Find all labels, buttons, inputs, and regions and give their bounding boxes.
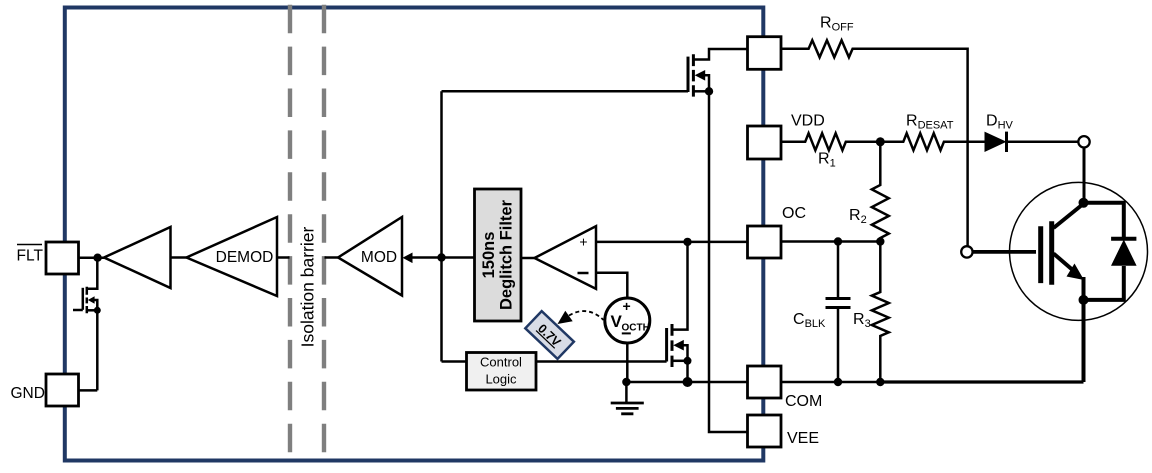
- svg-text:MOD: MOD: [361, 249, 397, 266]
- svg-text:Logic: Logic: [485, 372, 517, 387]
- svg-text:GND: GND: [11, 385, 45, 402]
- svg-text:R2: R2: [849, 207, 867, 226]
- svg-text:+: +: [579, 234, 587, 250]
- svg-text:VEE: VEE: [787, 430, 819, 447]
- svg-text:R3: R3: [853, 311, 871, 330]
- svg-text:DHV: DHV: [986, 113, 1014, 132]
- svg-text:Deglitch Filter: Deglitch Filter: [498, 199, 516, 310]
- svg-text:+: +: [623, 298, 631, 314]
- svg-text:COM: COM: [785, 393, 822, 410]
- svg-text:150ns: 150ns: [480, 232, 498, 279]
- svg-text:DEMOD: DEMOD: [216, 249, 274, 266]
- svg-text:VDD: VDD: [791, 113, 825, 130]
- svg-text:ROFF: ROFF: [820, 15, 854, 34]
- svg-text:CBLK: CBLK: [793, 311, 826, 330]
- svg-text:FLT: FLT: [17, 248, 44, 265]
- svg-text:Isolation barrier: Isolation barrier: [298, 227, 318, 348]
- svg-text:R1: R1: [818, 151, 836, 170]
- svg-text:RDESAT: RDESAT: [906, 113, 954, 132]
- svg-text:OC: OC: [782, 205, 806, 222]
- svg-text:OCTH: OCTH: [622, 323, 650, 334]
- svg-text:Control: Control: [480, 355, 522, 370]
